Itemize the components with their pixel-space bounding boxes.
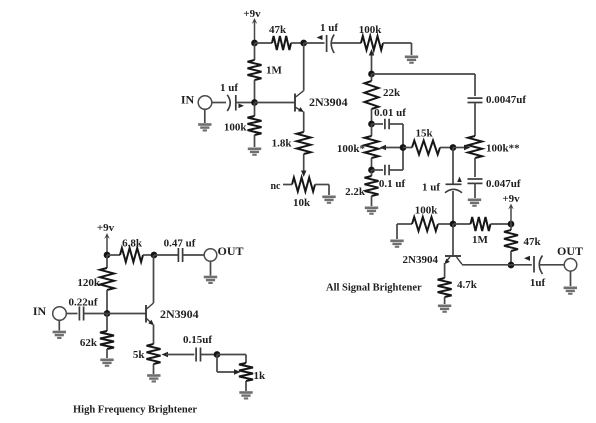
svg-text:10k: 10k bbox=[293, 197, 311, 209]
svg-text:OUT: OUT bbox=[218, 244, 244, 258]
resistor 120k bbox=[106, 255, 108, 268]
capacitor 1uf (tone stack to base, polarized) bbox=[452, 148, 454, 184]
capacitor 0.0047uf bbox=[468, 97, 483, 99]
capacitor 0.01uf bbox=[372, 123, 384, 125]
ground (0.047uf) bbox=[474, 183, 476, 198]
svg-text:47k: 47k bbox=[269, 24, 287, 36]
ground (OUT jack stage 2) bbox=[570, 271, 572, 286]
svg-text:0.1 uf: 0.1 uf bbox=[379, 178, 406, 190]
wire: cap to OUT jack bbox=[539, 264, 564, 266]
ground (5k pot) bbox=[153, 364, 155, 374]
svg-text:6.8k: 6.8k bbox=[122, 238, 143, 250]
svg-text:100k: 100k bbox=[224, 122, 248, 134]
svg-text:15k: 15k bbox=[415, 128, 433, 140]
ground (100k stage 1) bbox=[248, 148, 261, 156]
node: +9v rail junction (HF) bbox=[104, 252, 111, 259]
svg-text:47k: 47k bbox=[524, 236, 542, 248]
wire: 100k pot to ground corner bbox=[383, 42, 412, 44]
svg-text:+9v: +9v bbox=[97, 222, 115, 234]
potentiometer 1k bbox=[239, 363, 253, 381]
svg-text:IN: IN bbox=[33, 304, 47, 318]
wire: collector to output node bbox=[462, 264, 511, 266]
node: wiper junction bbox=[368, 71, 375, 78]
resistor 1.8k (emitter, stage 1) bbox=[297, 132, 311, 154]
svg-text:+9v: +9v bbox=[243, 8, 261, 20]
wire: 1.8k to 10k pot wiper bbox=[303, 154, 305, 172]
svg-text:1 uf: 1 uf bbox=[220, 82, 238, 94]
potentiometer 10k bbox=[292, 178, 315, 192]
svg-text:0.47 uf: 0.47 uf bbox=[164, 238, 196, 250]
svg-text:0.047uf: 0.047uf bbox=[486, 178, 521, 190]
capacitor 1uf (input, stage 1) bbox=[227, 95, 230, 111]
resistor 47k (collector load, stage 1) bbox=[272, 36, 291, 50]
ground (4.7k) bbox=[438, 305, 451, 313]
resistor 22k bbox=[371, 74, 373, 81]
node: collector/output node stage 2 bbox=[508, 262, 515, 269]
svg-text:0.0047uf: 0.0047uf bbox=[486, 94, 526, 106]
capacitor 0.047uf bbox=[468, 178, 483, 180]
svg-text:0.15uf: 0.15uf bbox=[183, 334, 212, 346]
potentiometer 100k* (tone pot) bbox=[371, 124, 373, 136]
capacitor 0.47uf (output, HF) bbox=[154, 254, 178, 256]
ground (100k stage 2) bbox=[396, 224, 398, 239]
svg-text:0.22uf: 0.22uf bbox=[68, 297, 97, 309]
node: collector node (HF) bbox=[151, 252, 158, 259]
pot 5k wiper bbox=[162, 352, 169, 357]
resistor 62k bbox=[106, 314, 108, 332]
wire: base bbox=[255, 102, 295, 104]
svg-text:0.01 uf: 0.01 uf bbox=[374, 107, 406, 119]
wire: 47k to collector node bbox=[291, 42, 304, 44]
transistor 2N3904 (stage 2) bbox=[452, 224, 454, 255]
svg-text:2N3904: 2N3904 bbox=[160, 307, 199, 321]
wire: cap to 100k pot bbox=[332, 42, 362, 44]
transistor 2N3904 (HF) bbox=[145, 305, 147, 323]
svg-text:62k: 62k bbox=[80, 337, 98, 349]
svg-text:100k: 100k bbox=[359, 24, 383, 36]
ground (IN jack stage 1) bbox=[204, 109, 206, 123]
svg-text:1uf: 1uf bbox=[530, 277, 546, 289]
wire: 10k pot to ground bbox=[315, 184, 329, 186]
transistor 2N3904 (stage 1) bbox=[294, 94, 296, 112]
node: collector node stage 1 bbox=[300, 40, 307, 47]
power +9v arrow (stage 1) bbox=[254, 21, 256, 43]
node: +9v rail junction bbox=[251, 40, 258, 47]
node: base node (HF) bbox=[104, 310, 111, 317]
svg-text:1k: 1k bbox=[254, 370, 267, 382]
resistor 100k (base to gnd, stage 1) bbox=[254, 103, 256, 117]
resistor 100k (base bias to gnd, stage 2) bbox=[412, 217, 438, 231]
ground (100k pot) bbox=[405, 56, 418, 64]
resistor 47k (collector load, stage 2) bbox=[510, 224, 512, 230]
OUT jack (HF) bbox=[204, 249, 217, 262]
resistor 1M (stage 1) bbox=[254, 43, 256, 60]
power +9v arrow (stage 2) bbox=[510, 207, 512, 225]
wire: emitter down bbox=[303, 112, 305, 133]
resistor 1M (stage 2) bbox=[453, 223, 471, 225]
node: above 100k* pot bbox=[368, 121, 375, 128]
svg-text:100k: 100k bbox=[415, 205, 439, 217]
wire: collector node to coupling cap bbox=[304, 42, 325, 44]
svg-text:1M: 1M bbox=[266, 65, 283, 77]
resistor 6.8k bbox=[107, 254, 120, 256]
wire: node to 1k pot top bbox=[217, 354, 246, 356]
svg-text:120k: 120k bbox=[77, 277, 101, 289]
wire: cap to base node bbox=[236, 102, 255, 104]
svg-text:1.8k: 1.8k bbox=[272, 138, 293, 150]
ground (IN jack HF) bbox=[58, 320, 60, 330]
node: after 0.15uf bbox=[214, 351, 221, 358]
pot 1k wiper bbox=[216, 355, 218, 373]
potentiometer 100k** bbox=[474, 103, 476, 137]
resistor 15k bbox=[403, 147, 412, 149]
wire: IN to input cap bbox=[212, 102, 226, 104]
resistor 4.7k (emitter, stage 2) bbox=[438, 278, 452, 297]
potentiometer 100k (volume/drive pot, stage 1 out) bbox=[361, 36, 383, 50]
pot 100k** wiper bbox=[453, 147, 466, 149]
svg-text:1 uf: 1 uf bbox=[422, 182, 440, 194]
wire: emitter down (HF) bbox=[153, 325, 155, 345]
svg-text:5k: 5k bbox=[133, 349, 146, 361]
power +9v arrow (HF) bbox=[106, 236, 108, 255]
capacitor 1uf (output coupling, stage 2) bbox=[510, 264, 512, 266]
capacitor 0.22uf (input, HF) bbox=[78, 307, 80, 321]
svg-text:22k: 22k bbox=[383, 87, 401, 99]
svg-text:2.2k: 2.2k bbox=[345, 186, 366, 198]
wire: IN to 0.22uf bbox=[66, 313, 77, 315]
node: below 100k* pot bbox=[368, 167, 375, 174]
svg-text:100k*: 100k* bbox=[337, 143, 366, 155]
capacitor 0.15uf bbox=[195, 348, 197, 362]
svg-text:All Signal Brightener: All Signal Brightener bbox=[326, 283, 422, 294]
ground (1k pot) bbox=[245, 381, 247, 391]
svg-text:100k**: 100k** bbox=[486, 143, 520, 155]
wire: collector to rail (HF) bbox=[153, 255, 155, 303]
ground (10k pot) bbox=[322, 196, 335, 204]
capacitor 0.1uf bbox=[372, 169, 384, 171]
wire: collector to rail bbox=[303, 43, 305, 91]
wire: base rail (stage 2) bbox=[397, 223, 412, 225]
svg-text:4.7k: 4.7k bbox=[457, 279, 478, 291]
svg-text:nc: nc bbox=[271, 181, 282, 192]
svg-text:High Frequency Brightener: High Frequency Brightener bbox=[73, 405, 197, 416]
svg-text:OUT: OUT bbox=[557, 244, 583, 258]
node: base node stage 2 bbox=[450, 221, 457, 228]
capacitor 1uf (interstage coupling) bbox=[326, 35, 328, 52]
node: base node stage 1 bbox=[251, 99, 258, 106]
svg-text:1 uf: 1 uf bbox=[320, 22, 338, 34]
node: 15k / 100k** wiper / 1uf junction bbox=[450, 144, 457, 151]
wire: wiper node to right column bbox=[372, 73, 476, 75]
ground (2.2k) bbox=[365, 207, 378, 215]
wire: right bypass column bbox=[402, 124, 404, 170]
svg-text:+9v: +9v bbox=[502, 193, 520, 205]
potentiometer 5k (emitter, HF) bbox=[147, 344, 161, 364]
resistor 2.2k bbox=[371, 170, 373, 176]
pot 100k* wiper bbox=[385, 147, 404, 149]
node: wiper of 100k* / 15k junction bbox=[400, 144, 407, 151]
node: +9v node stage 2 bbox=[508, 221, 515, 228]
ground (62k) bbox=[100, 359, 113, 367]
pot 100k wiper bbox=[371, 54, 373, 74]
svg-text:2N3904: 2N3904 bbox=[309, 95, 348, 109]
wire: rail to 47k bbox=[255, 42, 273, 44]
OUT jack (stage 2) bbox=[564, 259, 577, 272]
svg-text:2N3904: 2N3904 bbox=[403, 254, 439, 266]
nc terminal bbox=[283, 184, 292, 186]
svg-text:IN: IN bbox=[181, 93, 195, 107]
wire: base (HF) bbox=[107, 313, 146, 315]
ground (OUT jack HF) bbox=[210, 261, 212, 275]
svg-text:1M: 1M bbox=[472, 234, 489, 246]
